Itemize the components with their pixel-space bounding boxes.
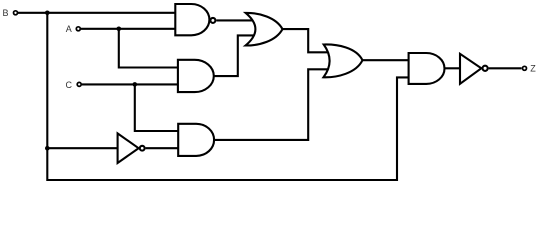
terminal A: [76, 27, 80, 31]
svg-text:B: B: [3, 8, 9, 18]
terminal C: [77, 82, 81, 86]
wire AND3 output to OR2 input 2: [214, 69, 330, 140]
terminal B: [14, 11, 18, 15]
wire C branch down to AND3 input 1: [135, 84, 178, 131]
NAND gate U1 body: [175, 4, 209, 35]
wire AND4 output to NOT2 input: [445, 67, 461, 69]
wire A branch down to AND2 input 1: [119, 29, 178, 68]
wire OR2 output to AND4 input 1: [363, 59, 409, 61]
wire C input to AND2 input 2: [82, 83, 178, 85]
junction C: [133, 82, 138, 87]
AND gate U4 body: [409, 53, 445, 84]
NAND gate U1 bubble: [210, 18, 215, 23]
wire NOT2 output to Z terminal: [489, 67, 522, 69]
junction B top: [45, 11, 50, 16]
wire NAND1 output to OR1 input 1: [216, 19, 254, 21]
NOT gate U7 bubble: [140, 146, 145, 151]
NOT gate U7 triangle: [118, 133, 139, 163]
OR gate U6 body: [324, 44, 363, 77]
wire OR1 output to OR2 input 1: [283, 29, 331, 52]
wire B branch vertical down, bottom rail, and rail up to AND4 input 2: [47, 13, 408, 180]
wire A input to NAND1 input 2: [81, 28, 175, 30]
OR gate U5 body: [246, 13, 283, 46]
wire AND2 output to OR1 input 2: [214, 35, 255, 76]
svg-text:A: A: [66, 24, 72, 34]
wire NOT1 input from B branch: [47, 147, 117, 149]
junction A: [117, 27, 122, 32]
wire B input to NAND1 input 1: [18, 12, 175, 14]
junction B at NOT1 input: [45, 146, 50, 151]
terminal Z: [523, 66, 527, 70]
AND gate U2 body: [178, 60, 214, 92]
NOT gate U8 bubble: [483, 66, 488, 71]
svg-text:C: C: [66, 80, 73, 90]
AND gate U3 body: [178, 124, 214, 156]
wire NOT1 output to AND3 input 2: [146, 147, 179, 149]
NOT gate U8 triangle: [460, 54, 481, 84]
svg-text:Z: Z: [530, 64, 536, 74]
